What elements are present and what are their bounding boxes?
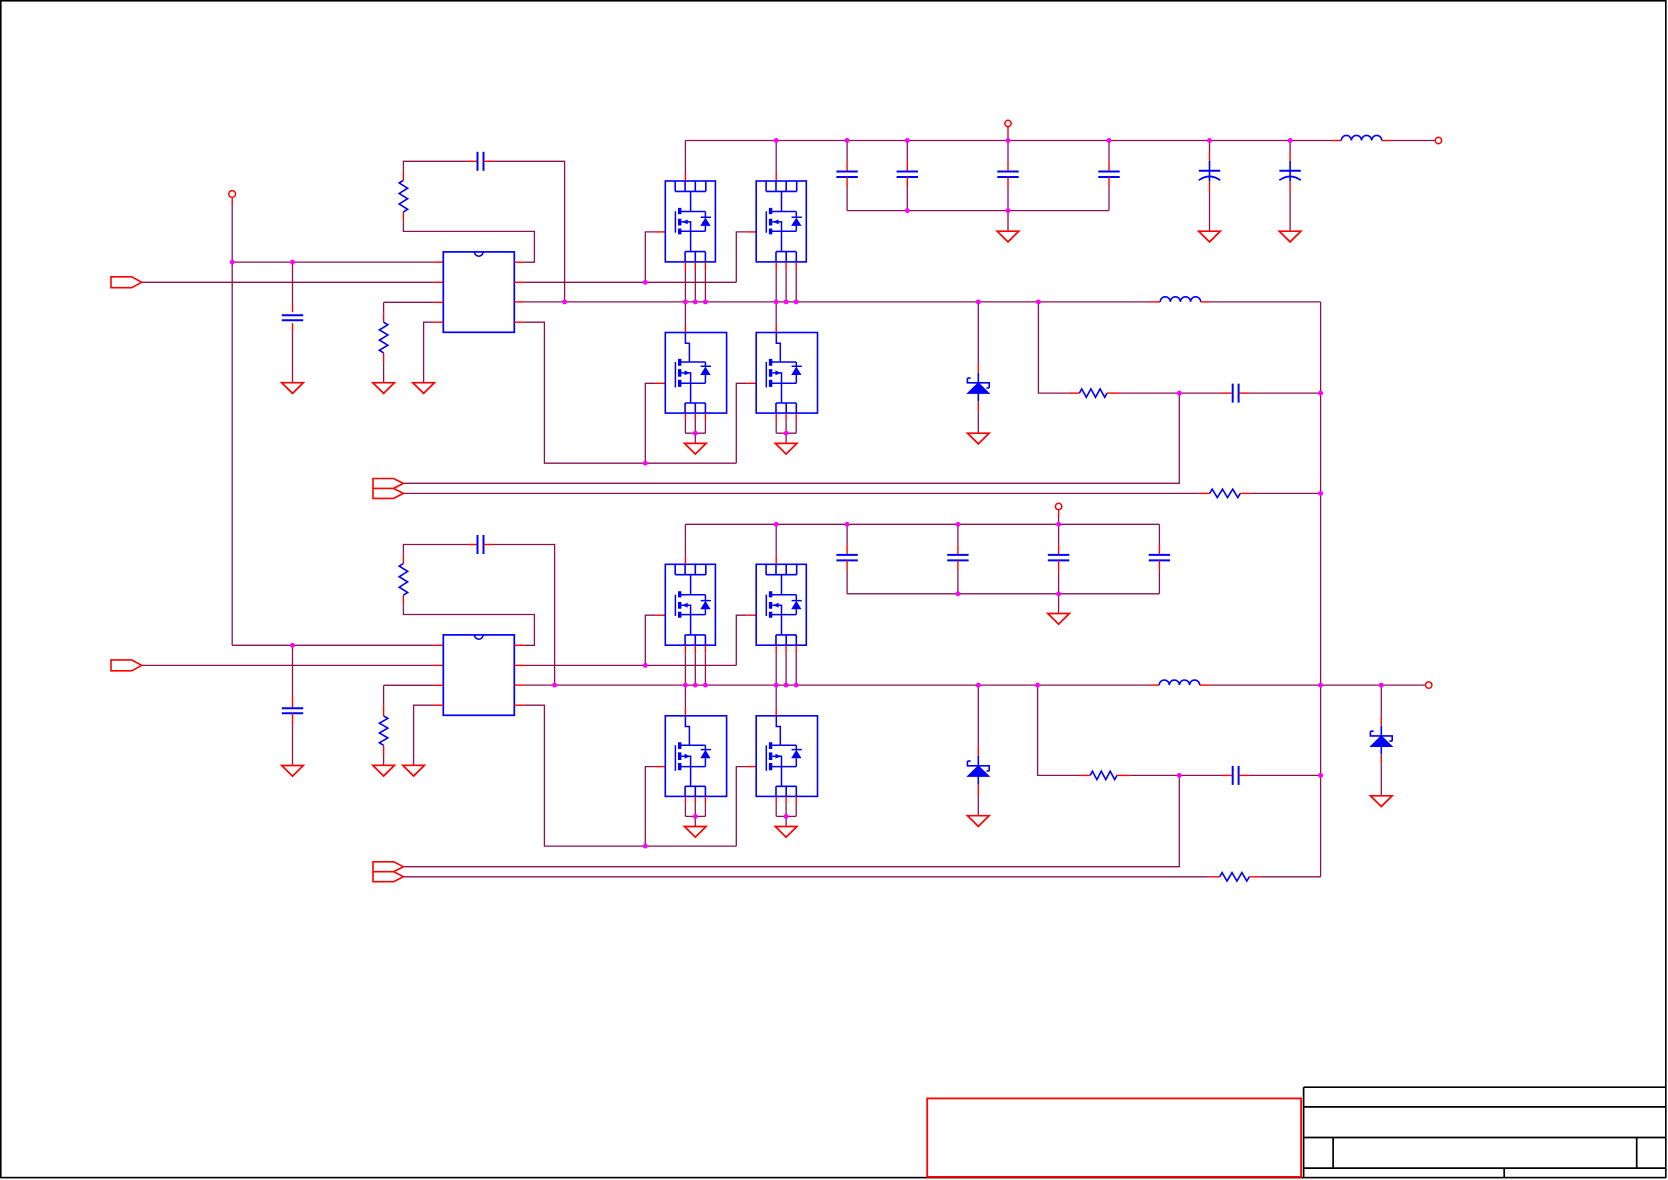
ground cap bank CH1 — [997, 231, 1019, 242]
capacitor polarized x1209.5 — [1199, 170, 1220, 172]
wire low source stem x685.4 CH2 — [694, 816, 696, 826]
wire source pin x695.3 CH1 — [694, 262, 696, 270]
revision box (red rectangle) — [927, 1098, 1301, 1177]
wire gate Q3 riser — [645, 383, 655, 463]
node feedback to phase CH2 — [552, 683, 557, 688]
node bottom bus2 x957 — [955, 591, 960, 596]
node rail cap x847.1 — [845, 138, 850, 143]
wire D3 lower lead — [1380, 754, 1382, 764]
U1 right pin stubs — [514, 261, 524, 263]
wire C5 right lead — [484, 544, 495, 546]
wire U2 pin2-right gate net — [524, 664, 736, 666]
node bottom bus x907 — [905, 208, 910, 213]
capacitor C2 — [477, 152, 479, 171]
ground low source x776.2 CH2 — [775, 827, 797, 838]
node snubber tap CH1 — [1036, 299, 1041, 304]
wire U1 pin2 red stub — [434, 281, 444, 283]
node OUT1 lower junction — [1318, 491, 1323, 496]
ground low source x685.4 — [685, 443, 707, 454]
title block outline — [1304, 1087, 1666, 1177]
ground low source x776.2 — [775, 443, 797, 454]
wire L2 to terminal — [1392, 140, 1435, 142]
wire Q2 drain riser — [775, 141, 777, 173]
wire U2 pin1-right riser — [403, 605, 534, 646]
wire low source stem x685.4 — [694, 433, 696, 443]
diode zener D3 — [1380, 726, 1382, 736]
wire right vertical CH1 (phase to ports) — [1320, 302, 1322, 877]
wire cap2 x847.1 lower lead — [846, 560, 848, 570]
wire cap2 x957.9 lower lead — [957, 560, 959, 570]
transistor Q7 — [665, 716, 726, 797]
wire C4 upper lead — [292, 645, 294, 696]
node gate Q5 junction — [643, 663, 648, 668]
wire R1 upper lead — [402, 171, 404, 181]
wire C2 right lead — [484, 160, 495, 162]
wire VCC rail CH2 — [685, 523, 1159, 525]
wire cap2 x847.1 upper lead — [846, 524, 848, 545]
capacitor C1 — [282, 314, 303, 316]
wire source pin x705.4 CH2 — [704, 645, 706, 653]
wire gate Q5 red stub — [655, 614, 665, 616]
wire C6 left lead — [1179, 774, 1222, 776]
node source pin x705.4 CH2 — [703, 683, 708, 688]
wire R6 lower lead — [383, 745, 385, 755]
wire U2 pin1 net — [232, 644, 433, 646]
terminal OUT-B — [1426, 682, 1432, 688]
wire cap bank bottom bus CH1 — [847, 210, 1109, 212]
terminal VDD CH1 — [1005, 120, 1011, 126]
node source pin x685.4 CH1 — [683, 299, 688, 304]
wire source pin x695.3 CH2 — [694, 645, 696, 653]
wire low source stem x776.2 — [785, 433, 787, 443]
wire C6 right lead — [1240, 774, 1250, 776]
wire D1 upper lead — [977, 302, 979, 363]
node rail cap x1008 — [1006, 138, 1011, 143]
ground D1 — [968, 433, 990, 444]
wire gate Q4 red stub — [746, 382, 756, 384]
capacitor bank CH1 x907.3 — [897, 171, 918, 173]
node rail cap x907.3 — [905, 138, 910, 143]
node gate Q1 junction — [643, 280, 648, 285]
terminal VDD CH2 — [1055, 503, 1061, 509]
capacitor bank CH1 x1109 — [1098, 171, 1119, 173]
wire gate Q8 riser — [736, 767, 746, 847]
wire L2 right red stub — [1382, 140, 1392, 142]
wire cap x1008 upper lead — [1007, 141, 1009, 162]
wire cap bank bottom bus CH2 — [847, 593, 1159, 595]
wire source pin x685.4 CH2 — [684, 645, 686, 653]
diode zener D1 — [977, 373, 979, 383]
node rail2 cap x957.9 — [955, 522, 960, 527]
inductor L2 — [1341, 135, 1381, 140]
wire cap2 x1058.6 lower lead — [1058, 560, 1060, 570]
ground C1 — [282, 383, 304, 394]
wire source pin x796.2 CH1 — [795, 262, 797, 270]
wire U2 pin4-left to ground — [414, 705, 434, 765]
wire feedback tap to OUT1 upper — [403, 393, 1179, 483]
node source pin x695.3 CH1 — [693, 299, 698, 304]
capacitor bank CH2 x957.9 — [947, 554, 968, 556]
wire U1 pin1 net — [232, 261, 433, 263]
node source pin x796.2 CH2 — [794, 683, 799, 688]
wire R5 lower red stub — [402, 595, 404, 605]
wire R1 lower red stub — [402, 212, 404, 222]
wire cap x1109 upper lead — [1108, 141, 1110, 162]
wire U2 pin4-right riser — [524, 705, 736, 846]
wire L3 to terminal branch — [1210, 684, 1425, 686]
wire D1 lower lead — [977, 401, 979, 412]
transistor Q2 — [756, 181, 806, 262]
resistor R4 — [1210, 489, 1241, 497]
port IN2 — [111, 660, 142, 671]
wire L1 left red stub — [1150, 301, 1160, 303]
node rail2 cap x1058.6 — [1056, 522, 1061, 527]
wire U2 pin1 red stub — [434, 644, 444, 646]
wire R5 upper lead — [402, 554, 404, 564]
capacitor bank CH1 x847.1 — [836, 171, 857, 173]
node Q2 drain rail — [774, 138, 779, 143]
wire C4 lower lead — [292, 713, 294, 725]
wire polar cap x1290.1 upper lead — [1289, 141, 1291, 152]
wire vcc vertical upper — [231, 205, 233, 262]
node Q6 drain rail — [774, 522, 779, 527]
transistor Q4 — [756, 333, 817, 414]
resistor R7 — [1090, 771, 1117, 779]
capacitor C6 — [1232, 766, 1234, 785]
wire feedback tap to OUT2 upper — [403, 775, 1179, 866]
node C1 tap — [290, 260, 295, 265]
wire cap2 x1159.4 lower lead — [1158, 560, 1160, 570]
wire R8 left red stub — [1210, 876, 1220, 878]
resistor R6 — [379, 716, 387, 745]
wire vcc vertical lower (to U2) — [231, 262, 233, 645]
wire cap2 x1159.4 upper lead — [1158, 524, 1160, 545]
node low source join x776.2 — [784, 431, 789, 436]
wire gate Q7 red stub — [655, 766, 665, 768]
wire C2 left red stub — [467, 160, 478, 162]
wire phase bus CH1 — [524, 301, 1150, 303]
wire L3 right red stub — [1200, 684, 1211, 686]
wire cap x1008 lower lead — [1007, 177, 1009, 187]
node gate Q3 junction — [643, 461, 648, 466]
ground R6 — [373, 765, 395, 776]
wire gate Q7 riser — [645, 767, 655, 847]
wire OUT1 lower — [403, 492, 1199, 494]
capacitor C4 — [282, 707, 303, 709]
wire Q7 drain drop — [684, 685, 686, 708]
inductor L3 — [1159, 680, 1199, 685]
wire source pin x705.4 CH1 — [704, 262, 706, 270]
port OUT1 — [373, 479, 403, 499]
wire low source pins x685.4 — [684, 413, 686, 421]
wire source pin x796.2 CH2 — [795, 645, 797, 653]
wire R3 left red stub — [1068, 392, 1079, 394]
wire gate Q2 riser — [736, 232, 746, 282]
ground D2 — [968, 816, 990, 827]
wire phase bus CH2 — [524, 684, 1149, 686]
wire Q6 drain riser — [775, 524, 777, 556]
node rail polar cap x1290.1 — [1288, 138, 1293, 143]
wire polar cap x1290.1 lower lead — [1289, 171, 1291, 182]
U2 left pin3 pin4 stubs — [434, 684, 444, 686]
node source pin x695.3 CH2 — [693, 683, 698, 688]
wire source pin x786.1 CH1 — [785, 262, 787, 270]
resistor R2 — [379, 322, 387, 353]
wire snubber drop CH2 — [1038, 685, 1079, 775]
wire C1 lower lead — [292, 323, 294, 332]
wire L1 right red stub — [1201, 301, 1211, 303]
capacitor bank CH2 x1159.4 — [1149, 554, 1170, 556]
ground U2 pin4 — [403, 765, 425, 776]
resistor R8 — [1220, 873, 1250, 881]
wire polar cap x1209.5 upper lead — [1209, 141, 1211, 152]
node source pin x776.2 CH1 — [774, 299, 779, 304]
wire R2 upper red stub — [383, 312, 385, 322]
resistor R1 — [399, 180, 407, 212]
node VCC junction CH1 — [230, 260, 235, 265]
wire gate Q4 riser — [736, 383, 746, 463]
inductor L1 — [1160, 297, 1200, 302]
node source pin x705.4 CH1 — [703, 299, 708, 304]
U2 right pin stubs — [514, 644, 524, 646]
node rail cap x1109 — [1107, 138, 1112, 143]
node feedback to phase CH1 — [562, 299, 567, 304]
wire cap2 x957.9 upper lead — [957, 524, 959, 545]
wire VDD stub CH1 — [1007, 127, 1009, 134]
wire gate Q6 red stub — [746, 614, 756, 616]
wire gate Q6 riser — [736, 615, 746, 665]
node zener D1 tap — [976, 299, 981, 304]
wire VCC rail CH1 — [685, 140, 1331, 142]
wire C5 left red stub — [467, 544, 478, 546]
wire C1 upper lead — [292, 262, 294, 303]
wire cap x1109 lower lead — [1108, 177, 1110, 187]
wire bank ground stem CH2 — [1058, 594, 1060, 614]
wire U1 pin1-right riser — [403, 222, 534, 263]
wire T1 stub — [231, 197, 233, 205]
capacitor polarized x1290.1 — [1279, 170, 1300, 172]
wire L1 to right vertical — [1211, 301, 1321, 303]
wire R2 lower lead — [383, 353, 385, 362]
wire IN2 to U2 pin2 — [142, 664, 434, 666]
wire R4 left red stub — [1200, 492, 1210, 494]
wire C3 left lead — [1179, 392, 1222, 394]
wire U1 pin1 red stub — [434, 261, 444, 263]
node rail polar cap x1209.5 — [1207, 138, 1212, 143]
wire cap x847.1 lower lead — [846, 177, 848, 187]
ground R2 — [373, 383, 395, 394]
node source pin x796.2 CH1 — [794, 299, 799, 304]
wire R7 left red stub — [1079, 774, 1090, 776]
transistor Q8 — [756, 716, 817, 797]
wire R7 right lead — [1117, 774, 1130, 776]
capacitor C3 — [1232, 384, 1234, 403]
transistor Q1 — [665, 181, 715, 262]
wire IN1 to U1 pin2 — [142, 281, 434, 283]
node zener D2 tap — [976, 683, 981, 688]
wire low source pins x685.4 CH2 — [684, 796, 686, 804]
wire Q1 drain riser — [684, 141, 686, 173]
node source pin x776.2 CH2 — [774, 683, 779, 688]
terminal OUT-A — [1435, 137, 1441, 143]
wire low source stem x776.2 CH2 — [785, 816, 787, 826]
node snubber right CH2 — [1318, 773, 1323, 778]
wire R4 right lead — [1240, 492, 1250, 494]
terminal T1 (gate-driver supply) — [229, 191, 236, 198]
wire source pin x786.1 CH2 — [785, 645, 787, 653]
wire Q5 drain riser — [684, 524, 686, 556]
U1 left pin3 pin4 stubs — [434, 301, 444, 303]
node C4 tap — [290, 643, 295, 648]
wire U1 pin2-right gate net — [524, 281, 736, 283]
node gate Q7 junction — [643, 844, 648, 849]
wire L3 left red stub — [1149, 684, 1159, 686]
capacitor bank CH2 x847.1 — [836, 554, 857, 556]
wire gate Q1 riser — [645, 232, 655, 282]
wire low source pins x776.2 — [775, 413, 777, 421]
node low source join x776.2 CH2 — [784, 814, 789, 819]
wire gate Q5 riser — [645, 615, 655, 665]
capacitor bank CH1 x1008 — [997, 171, 1018, 173]
node right vertical CH2 — [1318, 683, 1323, 688]
resistor R5 — [399, 564, 407, 596]
wire polar cap x1209.5 lower lead — [1209, 171, 1211, 182]
wire cap2 x1058.6 upper lead — [1058, 524, 1060, 545]
ground low source x685.4 CH2 — [685, 827, 707, 838]
node bottom bus x1008 — [1006, 208, 1011, 213]
wire source pin x776.2 CH1 — [775, 262, 777, 270]
wire U2 pin2 red stub — [434, 664, 444, 666]
wire gate Q8 red stub — [746, 766, 756, 768]
ground polar cap x1290.1 — [1279, 231, 1301, 242]
wire cap x847.1 upper lead — [846, 141, 848, 162]
wire D2 upper lead — [977, 685, 979, 746]
wire cap x907.3 lower lead — [906, 177, 908, 187]
node low source join x685.4 — [693, 431, 698, 436]
diode zener D2 — [977, 756, 979, 766]
wire low source pins x776.2 CH2 — [775, 796, 777, 804]
transistor Q5 — [665, 564, 715, 645]
wire R6 upper red stub — [383, 706, 385, 716]
wire VDD stub CH2 — [1058, 510, 1060, 517]
node source pin x786.1 CH1 — [784, 299, 789, 304]
resistor R3 — [1079, 389, 1107, 397]
node rail2 cap x847.1 — [845, 522, 850, 527]
wire Q4 drain drop — [775, 302, 777, 325]
port IN1 — [111, 277, 142, 288]
node snubber right CH1 — [1318, 391, 1323, 396]
node snubber tap CH2 — [1035, 683, 1040, 688]
wire OUT2 lower — [403, 876, 1209, 878]
wire source pin x685.4 CH1 — [684, 262, 686, 270]
wire gate Q2 red stub — [746, 231, 756, 233]
wire C3 right lead — [1240, 392, 1250, 394]
capacitor C5 — [477, 535, 479, 554]
wire D3 upper lead — [1380, 685, 1382, 716]
wire bank ground stem CH1 — [1007, 211, 1009, 232]
wire R8 right lead — [1249, 876, 1260, 878]
ground polar cap x1209.5 — [1199, 231, 1221, 242]
transistor Q3 — [665, 333, 726, 414]
wire gate Q1 red stub — [655, 231, 665, 233]
wire U1 pin3-left to R2 — [384, 301, 434, 303]
port OUT2 — [373, 862, 403, 882]
wire D2 lower lead — [977, 784, 979, 796]
ground D3 — [1371, 796, 1393, 807]
node zener D3 tap — [1379, 683, 1384, 688]
ground cap bank CH2 — [1048, 614, 1070, 625]
node low source join x685.4 CH2 — [693, 814, 698, 819]
wire R3 right lead — [1107, 392, 1120, 394]
wire U1 pin4-left to ground — [424, 322, 434, 383]
wire snubber drop CH1 — [1038, 302, 1068, 393]
wire U1 pin4-right riser — [524, 322, 736, 463]
wire gate Q3 red stub — [655, 382, 665, 384]
ground U1 pin4 — [413, 383, 435, 394]
wire source pin x776.2 CH2 — [775, 645, 777, 653]
node source pin x786.1 CH2 — [784, 683, 789, 688]
wire Q8 drain drop — [775, 685, 777, 708]
wire cap x907.3 upper lead — [906, 141, 908, 162]
transistor Q6 — [756, 564, 806, 645]
wire L2 left red stub — [1331, 140, 1341, 142]
node snubber mid CH1 — [1177, 391, 1182, 396]
node snubber mid CH2 — [1177, 773, 1182, 778]
op-amp U1 (half-bridge gate driver) — [443, 252, 514, 332]
wire U2 pin3-left to R6 — [384, 684, 434, 686]
ground C4 — [282, 766, 304, 777]
node source pin x685.4 CH2 — [683, 683, 688, 688]
node bottom bus2 x1058 — [1056, 591, 1061, 596]
op-amp U2 (half-bridge gate driver) — [443, 635, 514, 715]
capacitor bank CH2 x1058.6 — [1048, 554, 1069, 556]
wire Q3 drain drop — [684, 302, 686, 325]
